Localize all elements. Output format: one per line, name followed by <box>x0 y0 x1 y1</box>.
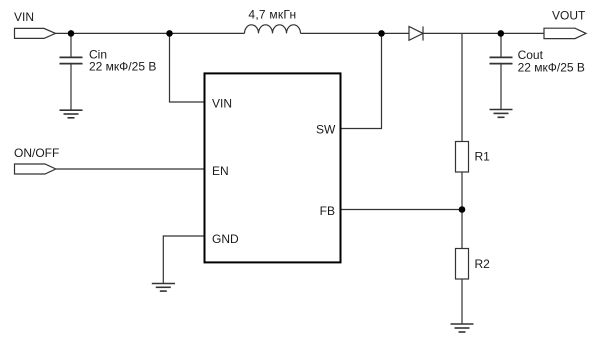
svg-text:VIN: VIN <box>14 10 34 24</box>
svg-text:ON/OFF: ON/OFF <box>14 146 59 160</box>
svg-text:EN: EN <box>212 164 229 178</box>
svg-text:R1: R1 <box>475 149 491 163</box>
svg-text:R2: R2 <box>475 257 491 271</box>
svg-text:SW: SW <box>316 122 336 136</box>
svg-text:VIN: VIN <box>212 96 232 110</box>
svg-text:22 мкФ/25 В: 22 мкФ/25 В <box>518 61 585 75</box>
svg-text:GND: GND <box>212 232 239 246</box>
svg-text:VOUT: VOUT <box>552 9 586 23</box>
svg-text:FB: FB <box>320 204 335 218</box>
svg-text:22 мкФ/25 В: 22 мкФ/25 В <box>89 60 156 74</box>
svg-text:4,7 мкГн: 4,7 мкГн <box>248 8 296 22</box>
